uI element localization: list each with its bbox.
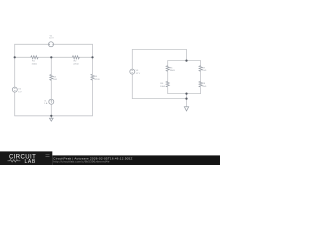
resistor R8 (lower right, vertical)	[199, 81, 202, 87]
ground (left circuit)	[50, 116, 54, 121]
node F	[185, 98, 187, 100]
wire bottom	[132, 98, 186, 100]
wire inner rect top	[168, 60, 201, 62]
node dots left circuit	[14, 56, 94, 117]
logo zigzag	[8, 160, 21, 162]
svg-text:2kΩ: 2kΩ	[202, 86, 206, 88]
svg-text:10 V: 10 V	[49, 38, 54, 40]
svg-text:12 V: 12 V	[136, 73, 141, 75]
resistor R2 (horizontal)	[72, 56, 79, 59]
resistor R7 (upper right, vertical)	[199, 66, 202, 72]
svg-text:39kΩ: 39kΩ	[170, 70, 176, 72]
node GND junction	[50, 115, 52, 117]
logo block background	[0, 151, 52, 165]
voltage source V2 (left edge, vertical)	[12, 87, 17, 92]
wire right edge upper	[92, 44, 94, 74]
svg-text:1 A: 1 A	[44, 102, 48, 105]
svg-text:1kΩ: 1kΩ	[53, 79, 57, 81]
wire top	[132, 49, 186, 60]
svg-text:470Ω: 470Ω	[94, 79, 100, 81]
ground (right circuit)	[184, 107, 188, 111]
node E	[185, 93, 187, 95]
node D	[185, 60, 187, 62]
node B	[50, 56, 52, 58]
labels left circuit	[18, 35, 100, 105]
wire inner rect right	[200, 61, 202, 94]
wire center drop	[186, 94, 188, 107]
svg-text:5 V: 5 V	[18, 92, 22, 94]
logo right tick marks	[46, 155, 50, 157]
resistor R1 (horizontal)	[31, 56, 38, 59]
wire inner rect bottom	[168, 93, 201, 95]
wire second row	[15, 56, 93, 58]
wire top left segment	[15, 43, 49, 45]
resistor R6 (lower left, vertical)	[166, 81, 169, 87]
resistor R4 (right edge, vertical)	[91, 74, 94, 80]
svg-text:220Ω: 220Ω	[73, 63, 79, 65]
resistor R5 (upper left, vertical)	[166, 66, 169, 72]
node A	[14, 56, 16, 58]
labels right circuit	[136, 67, 207, 88]
svg-text:100Ω: 100Ω	[32, 63, 38, 65]
wire middle branch	[50, 57, 52, 116]
caption block background	[52, 155, 220, 165]
wire left branch	[131, 49, 133, 98]
wire right edge lower	[92, 80, 94, 116]
resistor R3 (middle, vertical)	[50, 75, 53, 81]
wire bottom	[15, 115, 93, 117]
wire inner rect left	[167, 61, 169, 94]
node C	[91, 56, 93, 58]
svg-text:10kΩ: 10kΩ	[160, 86, 166, 88]
voltage source V3 (vertical)	[130, 69, 135, 74]
wire top right segment	[54, 43, 93, 45]
svg-text:LAB: LAB	[25, 159, 36, 165]
node dots right circuit	[185, 60, 187, 100]
svg-text:1kΩ: 1kΩ	[202, 70, 206, 72]
wire left edge	[14, 44, 16, 87]
svg-text:http://circuitlab.com/c/6b5396: http://circuitlab.com/c/6b5396zbnmrd4e	[53, 159, 109, 163]
voltage source V1 (top, horizontal)	[49, 42, 54, 47]
current source I1 (middle, vertical)	[49, 99, 54, 104]
wire left edge lower	[14, 92, 16, 116]
